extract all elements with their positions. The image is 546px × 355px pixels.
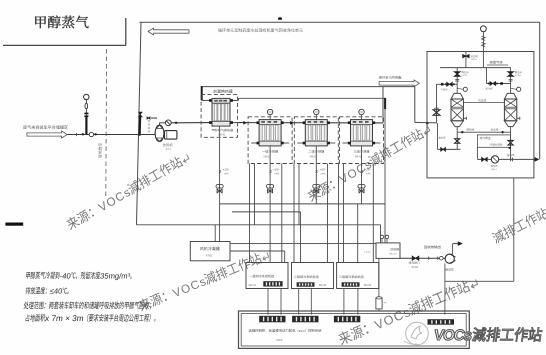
- junction node: [175, 122, 177, 124]
- note line 2: [25, 287, 69, 296]
- discharge arrow: [535, 157, 539, 161]
- svg-text:SLF-03: SLF-03: [364, 285, 372, 287]
- valve on vent riser: [139, 112, 142, 114]
- watermark 2: [306, 123, 433, 204]
- vacuum pump: [491, 156, 498, 163]
- check valve: [165, 120, 171, 126]
- coolant return line: [238, 98, 240, 100]
- black valve on vacuum branch: [441, 148, 443, 152]
- terminal block 2: [292, 316, 318, 323]
- relief valve body: [85, 103, 88, 108]
- terminal block 1: [259, 316, 285, 323]
- U4 bottom nozzles: [343, 142, 351, 144]
- vacuum pump line: [476, 147, 478, 159]
- label PE: [384, 303, 387, 305]
- label vent condensate: [507, 154, 515, 156]
- label feed valve B: [486, 88, 493, 90]
- svg-text:XV101: XV101: [471, 59, 478, 61]
- adsorber B inlet valve: [508, 72, 514, 74]
- label valve B: [515, 71, 522, 73]
- label 二级冷凝器: [308, 150, 324, 153]
- svg-text:×10³: ×10³: [320, 168, 326, 172]
- treated gas arrow: [379, 80, 419, 87]
- pump discharge: [452, 244, 454, 255]
- condenser U2: [259, 120, 281, 146]
- flow arrow: [244, 121, 247, 124]
- blowdown valve: [412, 256, 415, 260]
- stub pipes to fan condenser: [214, 225, 216, 242]
- label PLC system: [249, 329, 322, 333]
- svg-text:m³/h: m³/h: [321, 172, 326, 175]
- svg-text:FJ-1: FJ-1: [166, 148, 171, 151]
- flow label: [219, 169, 222, 175]
- control wires unit3: [343, 289, 345, 315]
- condensate control valve: [267, 184, 271, 188]
- control wires unit1: [267, 289, 269, 315]
- condensate drain U4: [361, 146, 363, 204]
- header drop to recovery tank: [384, 98, 386, 243]
- label valve A: [462, 71, 469, 73]
- condenser U3: [305, 120, 327, 146]
- dashed box condenser unit U2: [248, 117, 292, 164]
- feed tee A: [437, 83, 458, 85]
- watermark 1: [65, 151, 192, 232]
- label waste gas from loading platform: [23, 125, 68, 129]
- adsorber A inlet valve: [454, 72, 460, 74]
- signal line U3: [327, 164, 329, 263]
- drop A: [456, 132, 458, 149]
- steam regen box: [477, 135, 510, 147]
- feed riser: [436, 84, 438, 123]
- drop B: [510, 132, 512, 159]
- condensate header: [220, 203, 385, 205]
- label blower: [163, 143, 173, 146]
- battery limit dashed line: [105, 49, 108, 197]
- label 一级冷凝器: [262, 150, 278, 153]
- watermark 5 partial: [491, 203, 546, 244]
- label condensate recovery: [490, 143, 503, 145]
- condensate drain U2: [269, 146, 271, 263]
- svg-text:m³/h: m³/h: [224, 172, 229, 175]
- terminal block 4: [428, 319, 455, 325]
- condensate control valve: [216, 184, 220, 188]
- refrigeration unit 2 box: [292, 263, 334, 289]
- label equalization: [478, 99, 486, 102]
- relief stack pipe: [85, 117, 87, 135]
- secondary header: [232, 211, 301, 213]
- U3 bottom nozzles: [297, 142, 305, 144]
- svg-text:-40: -40: [59, 271, 71, 280]
- flange tick: [276, 121, 278, 124]
- vent gooseneck: [481, 26, 487, 32]
- label recovered product out: [424, 245, 440, 248]
- flange: [455, 79, 459, 81]
- drain valve with plug: [147, 117, 149, 119]
- return arrow to recycle unit: [148, 28, 189, 35]
- equalization line: [463, 102, 504, 104]
- adsorber vessel B: [504, 93, 516, 99]
- U2 left nozzle: [257, 121, 260, 124]
- svg-text:LIT-01: LIT-01: [365, 251, 372, 253]
- U2 bottom nozzles: [251, 142, 259, 144]
- signal line U4: [372, 164, 374, 263]
- flange ticks: [510, 158, 512, 162]
- svg-text:m³/h: m³/h: [275, 172, 280, 175]
- U4 left nozzle: [348, 121, 351, 124]
- gas line between condensers: [239, 122, 384, 124]
- svg-text:2: 2: [315, 169, 318, 175]
- riser thick bar: [201, 86, 203, 100]
- HX-01 top-right nozzle: [230, 99, 239, 101]
- pipe drop to recovery tank: [380, 225, 382, 243]
- condensate drain U3: [315, 146, 317, 204]
- refrigeration unit 1 box: [246, 263, 288, 289]
- adsorber B bottom stub: [510, 127, 512, 133]
- fan condenser outlet to tank: [230, 243, 376, 245]
- label 三级冷凝器: [354, 150, 370, 153]
- note line 3: [23, 301, 151, 309]
- refrigerant lines U2: [249, 164, 251, 263]
- check valve small: [440, 256, 444, 260]
- sensing line U4b: [357, 204, 359, 263]
- outer frame left edge / vent pipe: [137, 22, 142, 225]
- label MCC: [277, 338, 283, 342]
- svg-text:PLC: PLC: [299, 329, 306, 333]
- terminal block refrigeration 2: [297, 282, 315, 286]
- svg-text:WF-101: WF-101: [390, 253, 398, 255]
- adsorber skid boundary box: [427, 52, 534, 178]
- gas riser after U4: [382, 87, 384, 123]
- outer frame right edge: [539, 22, 541, 159]
- U4 right nozzle: [372, 121, 375, 124]
- vent riser thick segment: [139, 117, 142, 135]
- terminal block refrigeration 3: [342, 282, 360, 286]
- signal line U2: [281, 164, 283, 263]
- refrigerant lines U4: [338, 164, 340, 263]
- fan condenser box: [190, 242, 230, 261]
- HX-01 bottom-left nozzle: [209, 121, 212, 124]
- U3 right nozzle: [327, 121, 330, 124]
- precooler HX-01: [212, 98, 230, 126]
- valve on inlet line: [89, 132, 93, 136]
- label transfer pump: [445, 268, 453, 271]
- control cabinet inner box: [241, 314, 466, 346]
- svg-text:ZF-1W: ZF-1W: [412, 267, 420, 269]
- condensate drain U1: [219, 126, 221, 225]
- dashed box condenser unit U3: [294, 117, 338, 164]
- dashed box precooler unit: [201, 95, 237, 138]
- label blowdown valve: [409, 261, 420, 264]
- valve on drop A: [455, 139, 460, 141]
- adsorber B riser: [510, 68, 512, 94]
- feed drop to adsorber skid: [414, 87, 416, 123]
- dashed stub: [148, 120, 150, 135]
- condensate control valve: [358, 184, 362, 188]
- label SLF-01: [249, 285, 257, 287]
- watermark 4: [337, 276, 480, 348]
- pressure gauge: [511, 88, 517, 89]
- U3 left nozzle: [303, 121, 306, 124]
- label precooler: [213, 90, 232, 94]
- flange ticks: [428, 257, 430, 260]
- label tank: [391, 248, 399, 251]
- svg-text:2: 2: [219, 169, 222, 175]
- flange tick: [76, 133, 78, 136]
- valve on drop B: [508, 140, 513, 142]
- refrigeration unit 3 box: [337, 263, 379, 289]
- label to recycle: [379, 75, 402, 80]
- svg-text:35mg/m³: 35mg/m³: [100, 271, 132, 280]
- U2 right nozzle: [281, 121, 284, 124]
- black redaction dash: [5, 223, 23, 226]
- svg-text:≤40: ≤40: [49, 287, 62, 296]
- label refrigeration unit 3: [339, 275, 363, 278]
- transfer pump P-01: [445, 254, 454, 263]
- svg-text:FJ-01: FJ-01: [206, 254, 213, 257]
- bottom manifold: [457, 131, 510, 133]
- junction node: [509, 147, 511, 149]
- temperature gauge U3: [315, 115, 317, 120]
- terminal block 3: [334, 316, 360, 323]
- control cabinet outer box: [239, 311, 470, 348]
- junction node: [461, 131, 463, 133]
- outer frame top edge: [140, 21, 540, 23]
- blower J-01: [155, 125, 164, 141]
- note line 1: [26, 271, 133, 280]
- flow label: [361, 169, 364, 175]
- adsorber A riser: [456, 68, 458, 94]
- adsorber B side nozzle: [517, 117, 520, 119]
- refrigerant lines U3: [293, 164, 295, 263]
- label feed valve A: [441, 88, 448, 90]
- HX-01 bottom-right nozzle: [230, 122, 239, 124]
- node dot on top edge: [278, 17, 282, 20]
- svg-text:MCC: MCC: [277, 338, 283, 342]
- label vacuum valve: [439, 137, 446, 139]
- label local vent: [98, 143, 102, 158]
- fan condenser return line: [230, 250, 285, 252]
- junction node: [426, 122, 429, 125]
- relief stack vent cap: [84, 94, 89, 99]
- svg-text:2: 2: [269, 169, 272, 175]
- flow label: [269, 169, 272, 175]
- label steam regen: [480, 137, 491, 140]
- svg-text:去向: 去向: [398, 75, 402, 80]
- relief stack flanges: [84, 113, 88, 115]
- pipe to precooler: [171, 122, 212, 124]
- label vacuum pump: [491, 165, 498, 167]
- svg-text:XV102: XV102: [462, 75, 468, 77]
- svg-text:VOCs: VOCs: [433, 327, 473, 344]
- dashed box condenser unit U4: [340, 117, 384, 164]
- svg-text:SLF-02: SLF-02: [319, 285, 327, 287]
- condenser U4: [351, 120, 373, 146]
- inlet flow arrow: [27, 131, 67, 138]
- label methanol vapor: [35, 15, 88, 28]
- adsorber A side nozzle: [463, 117, 466, 119]
- label vent gas: [490, 61, 503, 64]
- label recycle unit: [218, 28, 303, 32]
- blower motor: [165, 131, 177, 140]
- flame arrester zigzag: [482, 36, 486, 40]
- black valve pair: [482, 157, 485, 161]
- tank outlet line: [400, 257, 445, 259]
- coolant thick bar: [384, 98, 386, 109]
- adsorber A bottom stub: [456, 127, 458, 133]
- methanol vapor source box: [3, 44, 126, 46]
- vent stack pipe: [482, 35, 484, 68]
- label desorb valve: [467, 128, 474, 130]
- watermark 3: [137, 249, 270, 314]
- label SLF-02: [319, 285, 327, 287]
- adsorber vessel A: [451, 93, 463, 99]
- svg-text:×10³: ×10³: [273, 168, 279, 172]
- flow label: [315, 169, 318, 175]
- feed tee B: [487, 83, 511, 85]
- feed control valve: [433, 110, 440, 113]
- svg-text:×10³: ×10³: [223, 168, 229, 172]
- label refrigeration unit 1: [249, 275, 274, 278]
- HX-01 top-left nozzle: [202, 99, 212, 101]
- vent shutoff valve XV: [465, 52, 467, 68]
- flange: [509, 79, 513, 81]
- label regen valve: [491, 128, 498, 130]
- svg-text:x 7m × 3m: x 7m × 3m: [45, 314, 85, 323]
- junction node: [138, 133, 141, 136]
- label refrigeration unit 2: [294, 275, 318, 278]
- control wires unit2: [298, 289, 300, 315]
- vacuum branch line: [438, 148, 461, 150]
- feed drop B: [486, 68, 488, 84]
- main inlet line: [68, 134, 158, 136]
- level transmitter stem: [378, 258, 380, 298]
- recovery tank WF-101: [376, 243, 400, 259]
- temperature gauge U4: [361, 115, 363, 120]
- svg-text:SLF-01: SLF-01: [249, 285, 257, 287]
- junction node: [82, 133, 84, 135]
- logo text VOCs: [433, 327, 473, 344]
- label methanol vapor HX: [212, 129, 233, 132]
- blower outlet pipe: [159, 123, 161, 126]
- pump control wire: [444, 263, 446, 314]
- exhaust header: [440, 67, 511, 69]
- product out arrow: [453, 243, 458, 245]
- label LIT-01: [365, 251, 372, 253]
- tank top nozzles: [381, 239, 383, 243]
- label fan condenser: [200, 247, 220, 251]
- logo text workstation: [472, 327, 543, 341]
- flow arrow: [290, 121, 293, 124]
- lightning arrester: [376, 298, 382, 309]
- condensate return from adsorber skid: [513, 178, 515, 281]
- label XV valve: [471, 55, 478, 57]
- pressure gauge: [457, 88, 463, 89]
- logo sketch circle: [404, 322, 428, 345]
- label SLF-03: [364, 285, 372, 287]
- coolant header line: [202, 86, 415, 88]
- condensate control valve: [313, 184, 317, 188]
- note line 4: [25, 314, 156, 323]
- temperature gauge U2: [269, 115, 271, 120]
- svg-text:ZKB-1: ZKB-1: [491, 169, 498, 171]
- condensate collection pipe: [137, 224, 381, 226]
- svg-text:XV103: XV103: [515, 75, 521, 77]
- terminal block refrigeration 1: [263, 281, 282, 286]
